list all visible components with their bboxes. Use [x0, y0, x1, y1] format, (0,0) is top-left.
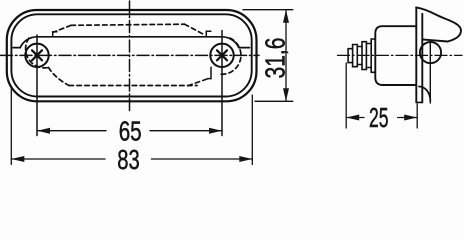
svg-text:65: 65: [119, 115, 142, 146]
svg-text:31,6: 31,6: [260, 38, 291, 79]
svg-text:25: 25: [369, 102, 389, 133]
svg-text:83: 83: [117, 144, 140, 173]
